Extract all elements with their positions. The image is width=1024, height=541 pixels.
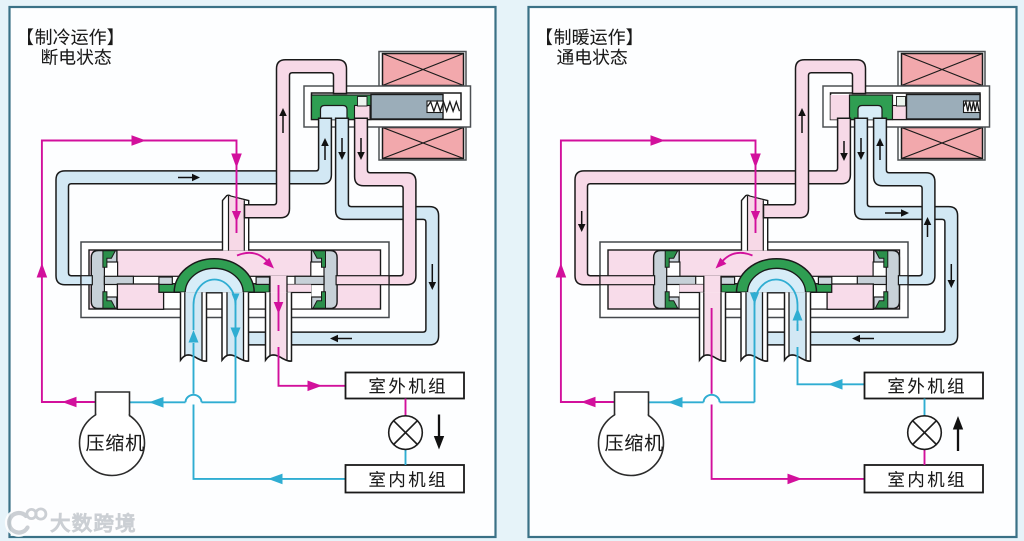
pipe: pilot port-2 to suction line (765, 118, 958, 345)
black flow arrows on pilot piping (178, 108, 436, 342)
tube to outdoor-unit side (bottom right) (266, 292, 292, 361)
piston stems on rail (667, 276, 887, 284)
direction arrow (up) (953, 416, 963, 451)
slide rail / valve seat (103, 276, 325, 284)
pilot valve bore (312, 93, 462, 120)
pipe: pilot port-1 to left end-cap capillary (56, 118, 331, 285)
pilot valve slide (green) with vent channel (312, 95, 372, 120)
pilot valve housing (823, 86, 990, 127)
outdoor unit box (346, 373, 465, 399)
watermark logo and text (9, 509, 134, 533)
pipe: discharge tap to pilot valve (inverted U) (764, 60, 866, 218)
slide dome (green) with suction channel (174, 259, 254, 293)
pipe: pilot port-1 to left end-cap capillary (575, 118, 850, 285)
tube to indoor-unit side (bottom left) (700, 292, 726, 361)
four-way valve interior chamber (89, 250, 381, 309)
solenoid coil upper winding (383, 54, 464, 86)
four-way valve interior chamber (608, 250, 900, 309)
suction tube to compressor (bottom centre) (222, 292, 249, 361)
solenoid coil lower winding (383, 128, 464, 159)
left end-cap capillary port (81, 276, 92, 285)
right piston of slide assembly (873, 251, 899, 309)
pressure strip beside right piston (269, 285, 311, 293)
title text (547, 28, 632, 65)
four-way valve outer shell (81, 242, 389, 318)
wire: to outdoor unit (magenta) (274, 285, 346, 391)
panel frame (cooling diagram) (10, 7, 496, 537)
discharge inlet tube (top) (223, 195, 249, 250)
slide end brackets (721, 277, 832, 284)
discharge inlet tube (top) (742, 195, 768, 250)
solenoid coil upper winding (902, 54, 983, 86)
left piston of slide assembly (91, 251, 117, 309)
wire: compressor discharge line (magenta) (37, 135, 242, 407)
tube to outdoor-unit side (bottom right) (785, 292, 811, 361)
compressor (599, 392, 664, 476)
pilot valve slide (green) with vent channel (831, 95, 907, 120)
expansion valve (circle-X) (908, 399, 942, 466)
piston stems on rail (104, 276, 324, 284)
expansion valve (circle-X) (389, 399, 423, 466)
pilot plunger with return spring (907, 95, 981, 120)
slide base plate (green) (159, 284, 270, 293)
flow arrow inside chamber (237, 253, 274, 269)
solenoid bobbin frame (379, 52, 466, 161)
pressure pocket beside left piston (117, 284, 163, 309)
flow arrow inside chamber (716, 253, 753, 269)
wire: compressor discharge line (magenta) (556, 135, 761, 407)
direction arrow (down) (434, 415, 444, 450)
flow: suction path through dome (189, 280, 241, 357)
pipe: pilot port-3 to right end-cap capillary (874, 118, 935, 285)
wire: to indoor unit (magenta) (712, 308, 865, 484)
title text (28, 28, 113, 65)
pipe: discharge tap to pilot valve (inverted U) (245, 60, 347, 218)
pilot valve bore (831, 93, 981, 120)
pipe: pilot port-2 to suction line (246, 118, 439, 345)
suction tube to compressor (bottom centre) (741, 292, 768, 361)
pressure pocket beside right piston (827, 284, 873, 309)
slide end brackets (159, 277, 270, 284)
wire: from outdoor unit (cyan) (793, 308, 865, 390)
panel frame (heating diagram) (529, 7, 1017, 537)
tube to indoor-unit side (bottom left) (181, 292, 207, 361)
right end-cap capillary port (898, 276, 908, 285)
slide rail / valve seat (666, 276, 888, 284)
solenoid bobbin frame (898, 52, 985, 161)
open port through rail (704, 276, 721, 293)
indoor unit box (865, 465, 984, 493)
left piston of slide assembly (654, 251, 680, 309)
pipe: pilot port-3 to right end-cap capillary (355, 118, 416, 285)
slide dome (green) with suction channel (737, 259, 817, 293)
outdoor unit box (865, 373, 984, 399)
flow: suction path through dome (755, 280, 798, 331)
slide base plate (green) (721, 284, 832, 293)
wire: suction return to compressor (cyan) (130, 296, 236, 408)
compressor (80, 392, 145, 476)
right piston of slide assembly (311, 251, 337, 309)
solenoid coil lower winding (902, 128, 983, 159)
indoor unit box (346, 465, 465, 493)
pressure strip beside left piston (679, 285, 721, 293)
cavity below slide (white) (680, 285, 828, 309)
cavity below slide (white) (164, 285, 312, 309)
open port through rail (270, 276, 287, 293)
four-way valve outer shell (600, 242, 908, 318)
left end-cap capillary port (600, 276, 655, 285)
black flow arrows on pilot piping (578, 108, 955, 342)
wire: suction return to compressor (cyan) (649, 293, 760, 408)
pilot valve housing (304, 86, 471, 127)
wire: from indoor unit (cyan) (194, 356, 346, 484)
right end-cap capillary port (336, 276, 389, 285)
pilot plunger with return spring (371, 95, 460, 120)
